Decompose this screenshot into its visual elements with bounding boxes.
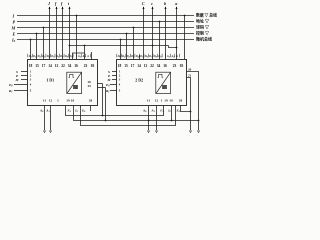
junction dot L6 jog a bbox=[176, 47, 178, 49]
wire arrow input 4 bbox=[69, 7, 71, 60]
svg-text:c: c bbox=[151, 1, 153, 6]
wire U2 control pin ILE bbox=[110, 84, 117, 86]
arrowheads top inputs bbox=[49, 6, 178, 9]
svg-text:12: 12 bbox=[144, 64, 148, 68]
svg-text:b: b bbox=[164, 1, 166, 6]
wire pin20 right bbox=[187, 72, 199, 131]
bottom pin numbers U2 bbox=[147, 99, 183, 103]
svg-text:a: a bbox=[175, 1, 177, 6]
wire bus L1 bbox=[17, 15, 194, 17]
svg-text:M: M bbox=[11, 26, 16, 31]
bottom pin labels U2 bbox=[142, 109, 181, 114]
svg-text:11: 11 bbox=[147, 99, 151, 103]
junction dot L1 far right bbox=[184, 15, 186, 17]
svg-text:18: 18 bbox=[29, 64, 33, 68]
wire U2 pin to rail2 bbox=[171, 106, 173, 121]
wire vcc bracket right bbox=[181, 106, 191, 112]
junction dot L5 right pin bbox=[120, 39, 122, 41]
wire output Io1 right bbox=[148, 106, 150, 131]
wire U2 control pin WR2 bbox=[112, 79, 117, 81]
wire arrow input C bbox=[143, 7, 145, 60]
DAC U2 top pin labels bbox=[117, 55, 178, 59]
svg-text:A1: A1 bbox=[45, 109, 49, 114]
svg-text:A: A bbox=[86, 55, 89, 58]
svg-text:15: 15 bbox=[124, 64, 128, 68]
wire pin10 to rail2 bbox=[74, 106, 199, 121]
terminal mark 5 bbox=[189, 131, 191, 133]
DAC U1 box bbox=[28, 60, 98, 106]
wire L6 end jog bbox=[169, 46, 177, 48]
wire bus L4 bbox=[17, 33, 194, 35]
bottom pin numbers U1 bbox=[43, 99, 93, 103]
svg-text:2 D2: 2 D2 bbox=[135, 78, 143, 83]
svg-text:18: 18 bbox=[118, 64, 122, 68]
svg-text:17: 17 bbox=[42, 64, 46, 68]
svg-text:03: 03 bbox=[180, 64, 184, 68]
wire arrow input 1 bbox=[49, 7, 51, 60]
svg-text:19: 19 bbox=[164, 99, 168, 103]
junction dot L1 pin8 bbox=[76, 15, 78, 17]
wire bus L6 bbox=[70, 45, 169, 47]
junction dot rail2 end bbox=[198, 120, 200, 122]
svg-text:28: 28 bbox=[179, 99, 183, 103]
svg-text:A1: A1 bbox=[77, 55, 81, 59]
svg-text:C: C bbox=[142, 1, 145, 6]
junction dot L5 pin1 bbox=[30, 39, 32, 41]
junction dot rail2 c bbox=[171, 120, 173, 122]
wire arrow input b bbox=[165, 7, 167, 60]
svg-text:19: 19 bbox=[66, 99, 70, 103]
svg-text:控制 ▽: 控制 ▽ bbox=[196, 30, 210, 36]
DAC U1 converter symbol bbox=[67, 72, 82, 93]
wire U1 control pin WR2 bbox=[21, 79, 28, 81]
svg-text:15: 15 bbox=[35, 64, 39, 68]
wire vertical pin3 left bbox=[43, 28, 45, 60]
svg-text:23: 23 bbox=[84, 64, 88, 68]
svg-text:16: 16 bbox=[163, 64, 167, 68]
svg-text:20: 20 bbox=[188, 67, 192, 71]
wire output Io2 left bbox=[50, 106, 52, 131]
svg-text:A1: A1 bbox=[151, 109, 155, 114]
wire U1 control pin CS bbox=[21, 71, 28, 73]
svg-text:25: 25 bbox=[88, 84, 92, 88]
junction dot L3 pin3 bbox=[43, 27, 45, 29]
wire bus L3 bbox=[17, 27, 194, 29]
svg-text:22: 22 bbox=[61, 64, 65, 68]
svg-text:34: 34 bbox=[157, 64, 161, 68]
terminal mark 6 bbox=[197, 131, 199, 133]
svg-text:E0: E0 bbox=[8, 83, 13, 88]
junction dot L3 right pin bbox=[133, 27, 135, 29]
wire pin21 right bbox=[187, 78, 191, 131]
svg-text:10: 10 bbox=[71, 99, 75, 103]
wire output Io2 right bbox=[156, 106, 158, 131]
svg-text:数据 ▽ 总线: 数据 ▽ 总线 bbox=[195, 13, 217, 18]
svg-text:I0: I0 bbox=[11, 37, 16, 43]
wire bus L5 bbox=[17, 39, 194, 41]
svg-text:10: 10 bbox=[169, 99, 173, 103]
svg-text:03: 03 bbox=[91, 64, 95, 68]
terminal mark 1 bbox=[43, 131, 45, 133]
svg-text:E: E bbox=[12, 32, 16, 37]
wire arrow input 3 bbox=[62, 7, 64, 60]
svg-text:译码 ▽: 译码 ▽ bbox=[196, 24, 210, 30]
svg-text:12: 12 bbox=[55, 64, 59, 68]
wire U1 control pin XFER bbox=[14, 90, 28, 92]
svg-text:A: A bbox=[175, 55, 178, 58]
svg-text:1 D1: 1 D1 bbox=[46, 78, 54, 83]
svg-text:12: 12 bbox=[49, 99, 53, 103]
DAC U2 converter symbol bbox=[156, 72, 171, 93]
bottom wiring bbox=[45, 106, 199, 131]
wire vertical pin1 left bbox=[30, 40, 32, 60]
junction dot rail1 bbox=[102, 115, 104, 117]
wire arrow input 2 bbox=[56, 7, 58, 60]
wire bus L2 bbox=[17, 21, 194, 23]
svg-text:A1: A1 bbox=[166, 55, 170, 59]
wire vertical pin3 right bbox=[133, 28, 135, 60]
junction dot L4 right pin bbox=[126, 33, 128, 35]
svg-text:地址 ▽: 地址 ▽ bbox=[196, 18, 210, 24]
bottom pin labels U1 bbox=[39, 109, 86, 114]
wire vertical pin4 right stub bbox=[139, 55, 141, 60]
wire U2 control pin XFER bbox=[110, 90, 117, 92]
svg-text:17: 17 bbox=[131, 64, 135, 68]
svg-text:1: 1 bbox=[161, 99, 163, 103]
junction dot rail2 a bbox=[105, 120, 107, 122]
wire vertical pin9 right from L2 bbox=[159, 22, 161, 60]
svg-text:28: 28 bbox=[89, 99, 93, 103]
svg-text:12: 12 bbox=[155, 99, 159, 103]
DAC U1 right output pins bbox=[98, 84, 106, 121]
terminal mark 4 bbox=[155, 131, 157, 133]
svg-text:22: 22 bbox=[150, 64, 154, 68]
DAC U2 top pin numbers bbox=[118, 64, 184, 68]
svg-text:微机总线: 微机总线 bbox=[195, 36, 212, 42]
wire U2 control pin WR1 bbox=[112, 75, 117, 77]
wire pin19 to rail1 bbox=[66, 106, 164, 116]
wire arrow input c bbox=[152, 7, 154, 60]
junction dot bracket bbox=[190, 111, 192, 113]
junction dot rail2 b bbox=[148, 120, 150, 122]
svg-text:16: 16 bbox=[74, 64, 78, 68]
wire vertical pin9 left from L6 with jog bbox=[73, 46, 85, 60]
wire output Io1 left bbox=[44, 106, 46, 131]
DAC U2 box bbox=[117, 60, 187, 106]
wire vertical pin2 left bbox=[36, 34, 38, 60]
wire vertical to L1 right bbox=[184, 16, 186, 60]
svg-text:D1: D1 bbox=[121, 55, 125, 59]
svg-text:E0: E0 bbox=[105, 83, 110, 88]
svg-text:34: 34 bbox=[68, 64, 72, 68]
DAC U2 top pin stub ticks bbox=[117, 54, 179, 58]
svg-text:14: 14 bbox=[137, 64, 141, 68]
wire U2 control pin CS bbox=[112, 71, 117, 73]
terminal mark 3 bbox=[147, 131, 149, 133]
wire arrow input a bbox=[176, 7, 178, 60]
wire U1 control pin WR1 bbox=[21, 75, 28, 77]
svg-text:11: 11 bbox=[43, 99, 47, 103]
svg-text:21: 21 bbox=[188, 73, 192, 77]
svg-text:I: I bbox=[12, 14, 15, 19]
svg-text:P: P bbox=[13, 20, 16, 25]
junction dot L4 pin2 bbox=[36, 33, 38, 35]
DAC U2 right pins bbox=[187, 72, 199, 131]
wire vertical pin1 right bbox=[120, 40, 122, 60]
svg-text:23: 23 bbox=[173, 64, 177, 68]
wire stub pin28 left bbox=[90, 106, 92, 112]
wire stub pin10 left bbox=[91, 52, 93, 60]
wire U1 control pin ILE bbox=[14, 84, 28, 86]
wire vertical pin8 left bbox=[76, 16, 78, 60]
junction dot L2 right pin bbox=[159, 21, 161, 23]
junction dot L6 c-arrow bbox=[152, 45, 154, 47]
svg-text:1: 1 bbox=[57, 99, 59, 103]
DAC U1 top pin stub ticks bbox=[28, 54, 90, 58]
svg-text:D1: D1 bbox=[32, 55, 36, 59]
junction dot L6 left bbox=[69, 45, 71, 47]
svg-text:14: 14 bbox=[48, 64, 52, 68]
wire pin3 to rail3 bbox=[81, 106, 176, 126]
DAC U1 top pin labels bbox=[28, 55, 89, 59]
junction dot L6 pin9 bbox=[84, 45, 86, 47]
DAC U1 top pin numbers bbox=[29, 64, 95, 68]
terminal mark 2 bbox=[49, 131, 51, 133]
wire vertical pin2 right bbox=[126, 34, 128, 60]
pin numbers U2 left inside bbox=[119, 70, 121, 93]
pin numbers U1 left inside bbox=[30, 70, 32, 93]
